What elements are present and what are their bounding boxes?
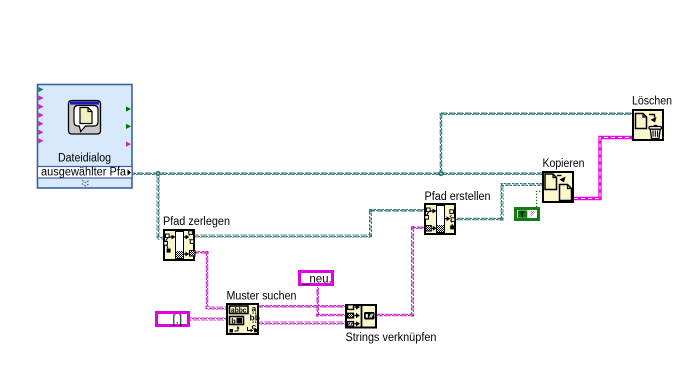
svg-text:T: T — [520, 209, 526, 219]
svg-text:b: b — [231, 316, 236, 325]
express VI Dateidialog — [38, 85, 133, 189]
wire: elbow into Pfad zerlegen input — [157, 237, 164, 240]
b* box — [230, 317, 244, 325]
wire: string horizontal into Muster suchen string input — [206, 307, 228, 310]
svg-text:Muster suchen: Muster suchen — [227, 291, 297, 303]
boolean constant T — [516, 209, 539, 220]
node Strings verknuepfen (Concatenate Strings) — [346, 304, 437, 344]
middle path column — [176, 232, 184, 259]
express VI output row truncation arrow — [128, 169, 132, 175]
bottom-right offset glyph — [248, 327, 252, 331]
wire: elbow from neu. constant into Strings verknuepfen middle input — [316, 314, 345, 317]
svg-text:ausgewählter Pfa: ausgewählter Pfa — [41, 167, 127, 179]
node Muster suchen (Match Pattern) — [227, 291, 297, 335]
svg-text:Kopieren: Kopieren — [543, 158, 585, 170]
document inside bubble — [80, 108, 92, 124]
row 3: hatched rect + arrow — [348, 322, 354, 327]
row 1: empty rect + arrow — [348, 305, 354, 310]
wire: branch down from junction A to Pfad zerlegen input — [157, 174, 160, 237]
wire: Pfad zerlegen stripped-path output horizontal — [195, 235, 372, 238]
copy arrow glyph — [557, 175, 562, 177]
svg-text:Strings verknüpfen: Strings verknüpfen — [346, 332, 437, 344]
svg-text:Pfad erstellen: Pfad erstellen — [425, 191, 491, 203]
right tree glyph — [445, 210, 455, 230]
right bottom checkered output glyph — [184, 251, 195, 257]
left tree glyph — [425, 208, 437, 219]
wire: horizontal into Pfad erstellen base path input — [369, 209, 424, 212]
string constant neu. — [300, 272, 333, 286]
wire: horizontal into Kopieren target path input — [501, 183, 543, 186]
express VI right output terminals — [126, 106, 131, 146]
wire: Muster suchen before-substring output to Strings verknuepfen — [259, 305, 345, 308]
delete arrow glyph — [649, 115, 655, 118]
wire: string from [.] constant to Muster suchen regex input — [190, 318, 227, 321]
node Kopieren (Copy) — [543, 158, 585, 202]
wire: branch up from junction B toward Loeschen — [440, 113, 443, 174]
wire: string from Pfad zerlegen name output — [195, 251, 209, 254]
svg-text:Dateidialog: Dateidialog — [58, 153, 111, 165]
wire: Muster suchen after-substring output to Strings verknuepfen — [259, 322, 345, 325]
wire: vertical rise toward Kopieren target input — [501, 183, 504, 221]
wire: Pfad erstellen output horizontal — [456, 218, 503, 221]
back document — [545, 174, 557, 190]
express VI icon: gray 3D button — [69, 101, 101, 135]
wire: string vertical rise toward Pfad erstellen name input — [411, 226, 414, 317]
wire: main path wire from Dateidialog output, horizontal run to Kopieren source input — [132, 172, 543, 175]
junction B on main path wire — [438, 171, 443, 176]
express VI expand chevron — [82, 180, 89, 186]
bottom-left offset glyph — [230, 329, 234, 333]
svg-text:Löschen: Löschen — [632, 96, 672, 108]
middle path column — [437, 206, 445, 233]
wire: horizontal path wire to Loeschen input — [440, 112, 633, 115]
left bottom checkered input glyph — [426, 226, 437, 232]
svg-text:[.]: [.] — [173, 315, 183, 327]
dialog bubble — [74, 106, 98, 132]
express VI bottom border line — [38, 178, 131, 180]
trash can — [649, 126, 662, 139]
wire: string horizontal into Pfad erstellen name input — [411, 226, 424, 229]
node Pfad zerlegen (Strip Path) — [163, 216, 230, 260]
wire: string drop from neu. constant — [316, 287, 319, 317]
express VI left input terminals — [39, 87, 44, 143]
row 2: checkered rect + arrow — [348, 313, 354, 318]
junction A on main path wire — [155, 171, 160, 176]
wire: thick path wire Kopieren output to Loeschen (magenta with white dashes) — [574, 138, 632, 199]
svg-text:Pfad zerlegen: Pfad zerlegen — [163, 216, 230, 228]
document — [636, 114, 647, 129]
wire: string vertical drop toward Muster suchen — [206, 251, 209, 307]
svg-text:abbc: abbc — [231, 306, 247, 315]
concatenated output block — [364, 312, 375, 320]
express VI output row background — [38, 167, 133, 179]
wire: vertical rise toward Pfad erstellen — [369, 209, 372, 238]
wire: Strings verknuepfen output horizontal — [377, 314, 414, 317]
string constant [.] — [157, 313, 189, 327]
node Pfad erstellen (Build Path) — [425, 191, 491, 234]
svg-text:_neu.: _neu. — [302, 274, 332, 286]
left tree glyph — [164, 234, 176, 253]
front document — [560, 185, 572, 201]
abbc box — [230, 306, 249, 314]
node Loeschen (Delete) — [632, 96, 672, 141]
wire: boolean dotted wire from T constant to Kopieren — [537, 192, 543, 208]
right top tree glyph — [184, 231, 194, 244]
